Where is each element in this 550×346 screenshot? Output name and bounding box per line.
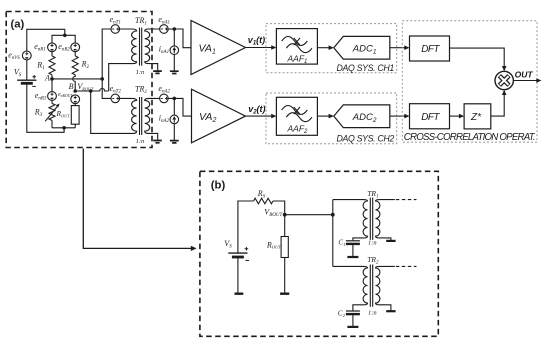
svg-text:DAQ SYS. CH1: DAQ SYS. CH1 <box>337 63 395 73</box>
resistor R1 <box>36 56 55 75</box>
wire OUT <box>513 80 537 82</box>
wire e_nVS to battery <box>26 60 28 80</box>
transformer TR1 (b) secondary <box>376 200 395 241</box>
ground i_nA2 <box>170 141 179 143</box>
wire i_nA1 to ground <box>173 55 175 71</box>
capacitor C1 <box>338 239 360 258</box>
resistor R2 <box>72 56 89 75</box>
wire battery to RS <box>238 201 254 253</box>
junction i_nA1 <box>173 27 177 31</box>
voltage noise source e_nT1 <box>110 15 121 33</box>
box (a) dashed frame <box>6 12 152 148</box>
svg-text:1:n: 1:n <box>368 239 377 246</box>
svg-text:Z*: Z* <box>470 112 482 123</box>
ADC2 <box>334 105 390 128</box>
junction i_nA2 <box>173 97 177 101</box>
voltage noise source e_nR2 <box>58 42 79 53</box>
wire R1 to node A <box>51 75 53 79</box>
transformer TR1 core <box>140 28 142 66</box>
svg-text:DFT: DFT <box>421 112 440 123</box>
wire i_nA2 to ground <box>173 124 175 140</box>
voltage noise source e_nA1 <box>158 15 170 33</box>
voltage noise source e_nT2 <box>110 84 122 103</box>
filter AAF2 <box>276 97 317 135</box>
svg-text:A: A <box>44 73 50 82</box>
wire AAF1 to ADC1 <box>317 47 329 49</box>
svg-text:1:n: 1:n <box>136 69 145 76</box>
svg-text:1:n: 1:n <box>136 138 145 145</box>
battery VS (b) <box>224 239 249 260</box>
voltage noise source e_nVS <box>8 50 31 61</box>
wire node VROUT to transformer column <box>285 214 333 216</box>
ground battery <box>235 293 244 295</box>
junction A-row right <box>100 77 104 81</box>
wire e_nR1 to R1 <box>51 52 53 56</box>
wire e_nR2 to R2 <box>74 52 76 56</box>
wire battery to ground <box>237 257 239 293</box>
svg-text:B: B <box>69 82 74 91</box>
wire ROUT to ground <box>284 258 286 294</box>
wire node A row <box>52 78 102 80</box>
resistor RS <box>254 189 274 204</box>
wire bottom mid R3 to ROUT <box>52 127 75 129</box>
junction top rail <box>63 34 67 38</box>
box (b) dashed frame <box>200 171 438 336</box>
resistor ROUT (b) <box>266 237 288 258</box>
multiplier <box>495 71 513 89</box>
wire TR1 (b) secondary output dashed <box>396 199 417 201</box>
wire e_nT1 to node A column <box>102 29 111 79</box>
junction B-row <box>89 89 93 93</box>
wire ADC1 to DFT1 <box>390 47 405 49</box>
wire node A column to e_nT2 <box>102 79 111 99</box>
wire e_nA1 to VA1 input <box>168 29 191 48</box>
current noise source i_nA2 <box>159 98 179 124</box>
wire VROUT down to ROUT <box>284 215 286 237</box>
current noise source i_nA1 <box>159 29 179 55</box>
wire node B down to TR2 primary return <box>91 91 133 133</box>
node B <box>73 89 77 93</box>
wire transformer column vertical <box>332 200 334 267</box>
transformer TR1 (b) core <box>370 198 372 240</box>
svg-text:DFT: DFT <box>421 44 440 55</box>
ground i_nA1 <box>170 71 179 73</box>
wire e_nR3 to R3 <box>51 100 53 103</box>
wire e_nA2 to VA2 input <box>168 98 191 116</box>
voltage noise source e_nROUT <box>58 92 80 104</box>
wire v2(t) <box>246 115 273 117</box>
junction transformer column <box>331 213 335 217</box>
svg-text:v1(t): v1(t) <box>248 35 265 47</box>
DFT block ch2 <box>410 104 450 129</box>
wire top rail from e_nVS to branch split <box>27 29 65 51</box>
svg-text:DAQ SYS. CH2: DAQ SYS. CH2 <box>337 134 395 144</box>
filter AAF1 <box>276 29 317 66</box>
ground TR1 (b) secondary <box>386 240 395 242</box>
wire AAF2 to ADC2 <box>317 115 329 117</box>
svg-text:(a): (a) <box>11 18 25 30</box>
op-amp VA1 <box>191 21 246 75</box>
block Z* <box>464 104 491 129</box>
transformer TR2 (b) primary <box>333 266 368 310</box>
wire battery to bottom rail <box>27 83 64 132</box>
transformer TR2 (b) secondary <box>376 266 395 310</box>
transformer TR1 (b) primary <box>333 200 368 241</box>
ADC1 <box>334 36 390 59</box>
svg-text:OUT: OUT <box>515 70 534 80</box>
ground TR2 (b) secondary <box>386 310 395 312</box>
wire R3 to bottom <box>51 120 53 127</box>
svg-text:v2(t): v2(t) <box>248 104 265 116</box>
svg-text:(b): (b) <box>211 180 226 192</box>
resistor R3 variable <box>34 103 60 121</box>
wire R2 hop over A-row to node B <box>73 75 76 91</box>
capacitor C2 <box>338 309 360 327</box>
ground TR2 secondary <box>153 141 162 143</box>
voltage noise source e_nR3 <box>35 79 57 102</box>
DFT block ch1 <box>410 36 450 61</box>
wire RS to node VROUT <box>273 201 285 215</box>
ground TR1 secondary <box>153 71 162 73</box>
transformer TR2 core <box>140 97 142 135</box>
arrow box (a) to box (b) <box>83 149 191 249</box>
voltage noise source e_nA2 <box>158 84 170 103</box>
voltage noise source e_nR1 <box>34 42 56 53</box>
CROSS-CORRELATION dotted box <box>402 21 537 142</box>
wire DFT2 to Z* <box>450 115 460 117</box>
wire ADC2 to DFT2 <box>390 115 405 117</box>
DAQ SYS CH2 dotted box <box>266 93 397 144</box>
wire branch split to e_nR1 and e_nR2 <box>52 35 75 43</box>
node A <box>50 77 54 81</box>
transformer TR1 primary <box>109 29 137 91</box>
junction bottom rail <box>62 126 66 130</box>
wire Z* to multiplier <box>491 94 504 116</box>
op-amp VA2 <box>192 89 246 143</box>
resistor ROUT box <box>56 106 80 125</box>
node VROUT <box>283 213 287 217</box>
DAQ SYS CH1 dotted box <box>266 24 397 73</box>
transformer TR2 (b) core <box>370 265 372 307</box>
wire node B row with hop to TR1 primary return <box>75 89 109 92</box>
wire TR2 (b) secondary output dashed <box>396 265 417 267</box>
svg-text:1:n: 1:n <box>368 310 377 317</box>
battery V_S <box>14 68 37 87</box>
wire ROUT to bottom <box>74 124 76 128</box>
svg-text:CROSS-CORRELATION OPERAT.: CROSS-CORRELATION OPERAT. <box>404 132 536 143</box>
transformer TR1 secondary <box>145 29 160 71</box>
transformer TR2 primary <box>120 98 137 133</box>
ground ROUT <box>280 293 289 295</box>
transformer TR2 secondary <box>145 98 160 140</box>
wire v1(t) <box>246 47 273 49</box>
wire e_nROUT to ROUT <box>74 104 76 106</box>
wire DFT1 to multiplier <box>449 48 504 67</box>
